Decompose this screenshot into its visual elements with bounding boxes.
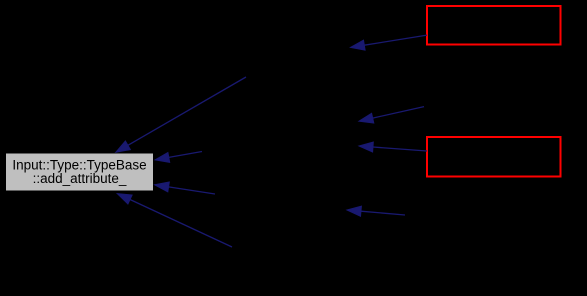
arrow L4: hidden caller node to central box (bottom-right corner) (117, 194, 232, 247)
arrow R2: hidden right node to hidden middle node (359, 107, 424, 123)
node: top-right red truncated box (427, 6, 561, 45)
arrow R3: middle-right red box to hidden node (359, 142, 427, 152)
arrow L3: hidden caller node to central box (right edge lower) (155, 182, 215, 194)
arrow L2: hidden caller node to central box (right edge upper) (155, 152, 202, 163)
svg-text:::add_attribute_: ::add_attribute_ (33, 171, 127, 186)
arrow R1: top red box to hidden node (351, 35, 428, 50)
node: central gray box Input::Type::TypeBase::add_attribute_ (6, 153, 154, 191)
arrow L1: hidden caller node to central box (top-right corner) (116, 77, 246, 152)
node: middle-right red truncated box (427, 137, 561, 177)
arrow R4: hidden bottom-right node to hidden middle node (347, 206, 405, 216)
